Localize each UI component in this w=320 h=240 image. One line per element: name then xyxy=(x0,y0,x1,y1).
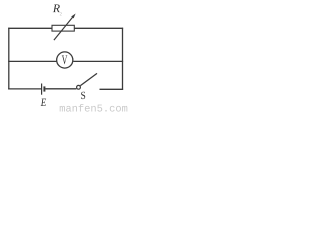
wire: top side, left segment xyxy=(8,27,52,29)
wire: middle branch, right segment xyxy=(73,60,123,62)
switch S (pivot circle and blade) xyxy=(77,73,97,89)
wire: bottom side, battery to switch segment xyxy=(45,88,76,90)
wire: right vertical side xyxy=(122,28,124,90)
wire: bottom side, left segment to battery xyxy=(8,88,41,90)
watermark text manfen5.com xyxy=(60,104,128,112)
battery E plates xyxy=(42,84,45,95)
label S xyxy=(81,92,85,99)
rheostat R2 wiper arrow xyxy=(54,14,76,41)
wire: left vertical side xyxy=(8,28,10,90)
wire: top side, right segment xyxy=(74,27,123,29)
rheostat R2 body (box) xyxy=(52,25,74,31)
label R (of R2) xyxy=(53,4,60,12)
voltmeter V (letter) xyxy=(62,55,67,64)
label E xyxy=(41,99,46,106)
wire: bottom side, right segment from switch open contact xyxy=(100,88,124,90)
wire: middle branch, left segment xyxy=(8,60,57,62)
voltmeter V (circle) xyxy=(57,52,73,68)
label subscript 2 (of R2) xyxy=(60,12,62,15)
